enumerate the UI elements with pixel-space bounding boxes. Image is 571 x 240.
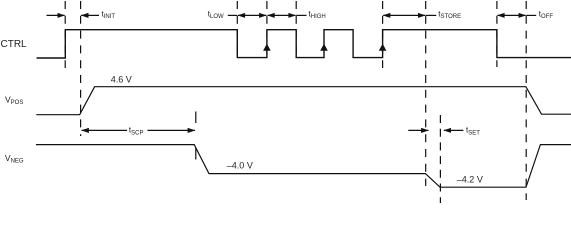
dashed line at CTRL falling edge / t_OFF start, x=497: [496, 1, 498, 67]
svg-text:–4.2 V: –4.2 V: [457, 174, 483, 184]
leader from t_LOW to dashed line: [228, 14, 238, 16]
arrow pointing right into t_SET start: [408, 129, 428, 131]
V_NEG waveform: [36, 145, 571, 188]
up arrowhead on CTRL rising edge at x=324: [320, 44, 328, 51]
up arrowhead on CTRL rising edge at x=267: [263, 44, 271, 51]
double arrow t_HIGH interval: [268, 14, 296, 16]
dashed line at t_INIT end / t_SCP start, x=80.5: [80, 1, 82, 136]
svg-text:–4.0 V: –4.0 V: [227, 161, 253, 171]
svg-text:VPOS: VPOS: [5, 94, 23, 106]
CTRL waveform: [37, 30, 571, 58]
svg-text:tSET: tSET: [466, 126, 480, 137]
svg-text:CTRL: CTRL: [1, 39, 28, 50]
leader from dashed line to t_HIGH label: [296, 14, 306, 16]
svg-text:tSTORE: tSTORE: [438, 10, 461, 21]
svg-text:4.6 V: 4.6 V: [111, 74, 132, 84]
arrow pointing right into t_INIT start: [47, 14, 65, 16]
double arrow t_LOW interval: [238, 14, 266, 16]
svg-text:tLOW: tLOW: [208, 10, 224, 21]
t_SCP double arrow, left half with arrowhead at x=81: [82, 129, 128, 131]
dashed line at t_STORE start, x=382.5: [382, 1, 384, 68]
svg-text:VNEG: VNEG: [5, 153, 24, 165]
V_POS waveform: [36, 87, 571, 115]
leader from dashed line to t_STORE label: [426, 14, 437, 16]
leader from dashed line to t_OFF label: [526, 14, 536, 16]
t_SCP double arrow, right half with arrowhead at x=195.5: [148, 129, 195, 131]
up arrowhead on CTRL rising edge at x=382.5: [379, 44, 387, 51]
dashed line at t_LOW end / t_HIGH start, x=267: [266, 1, 268, 58]
svg-text:tSCP: tSCP: [129, 126, 144, 137]
dashed line at t_SCP end / V_NEG falling edge, x=195.8 (two visible dashes): [195, 112, 197, 124]
dashed line at t_LOW start, x=237: [236, 1, 238, 58]
arrow pointing left into t_SET end, with leader to label: [444, 129, 464, 131]
dashed line at t_STORE end / V_NEG droop start, x=425.7 (full height): [425, 1, 427, 186]
dashed line at CTRL rising edge (t_INIT start), x=65: [64, 1, 66, 68]
dashed line at t_OFF end / supply ramp-down, x=526 (full height): [525, 1, 527, 200]
svg-text:tOFF: tOFF: [539, 10, 554, 21]
svg-text:tINIT: tINIT: [102, 10, 116, 21]
svg-text:tHIGH: tHIGH: [309, 10, 326, 21]
dashed line at t_HIGH end, x=296: [295, 1, 297, 58]
arrow pointing left into t_INIT end, with leader to label: [81, 14, 99, 16]
dashed line at t_SET end, x=440.5 (lower region): [439, 115, 441, 203]
double arrow t_STORE interval: [383, 14, 425, 16]
double arrow t_OFF interval: [498, 14, 526, 16]
